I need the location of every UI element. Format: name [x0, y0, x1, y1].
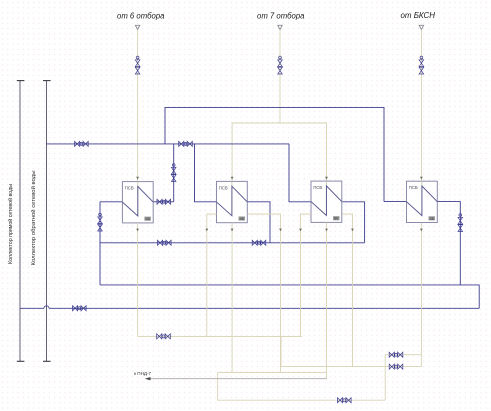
drain: heater2 right side jog x=280.5 — [247, 214, 280, 372]
heater ПСВ-2 — [217, 181, 248, 222]
svg-text:Коллектор прямой сетевой воды: Коллектор прямой сетевой воды — [7, 184, 14, 264]
flow arrow below heater2 — [231, 229, 234, 232]
pipe: supply header y=143.9 from collector2 to x=289 — [47, 143, 290, 145]
steam header split from 7 отбор (y=123) — [232, 123, 326, 182]
source triangle (от 6 отбора) — [135, 25, 139, 29]
vertical valve on riser x=173.7 — [171, 164, 176, 182]
collector 1 (прямая сетевая вода) vertical x=20 — [17, 81, 25, 362]
valve pair on drain header y=336.4 — [157, 334, 171, 339]
pipe: heater4 outlet to drop x=460.3 — [437, 202, 460, 285]
valve pair on y=242.8 line left — [158, 240, 172, 245]
flow arrow on drain x=300.5 — [299, 229, 302, 232]
drain header y=400.2 — [218, 372, 386, 400]
valve pair on drain header y=366.6 — [389, 364, 403, 369]
pipe: y=284.9 line — [100, 285, 479, 308]
heater ПСВ-4 — [407, 181, 438, 222]
flow arrow below heater1 — [136, 229, 139, 232]
flow arrow above heater1 — [136, 177, 139, 180]
drain bypass y=354.7 — [385, 354, 421, 356]
pipe: upper header y=107.4 — [165, 107, 384, 201]
drain header y=336.4 — [138, 335, 302, 337]
flow arrow on drain x=280.5 — [279, 229, 282, 232]
valve pair on y=242.8 line right — [252, 240, 266, 245]
flow arrow below heater3 — [325, 229, 328, 232]
heater ПСВ-3 — [311, 181, 342, 222]
vertical valve on riser x=100 — [98, 213, 103, 231]
drain: heater2 centre down to y=372.4 — [231, 223, 233, 373]
pipe: heater2 outlet to drop x=270 — [247, 202, 270, 243]
drain drop x=385.2 to y=400.2 — [384, 355, 386, 401]
drain: heater3 right side jog x=352.5 — [342, 214, 352, 367]
svg-text:от 6 отбора: от 6 отбора — [117, 11, 165, 21]
valve pair on supply header (right) — [179, 141, 193, 146]
pipe: heater3 outlet to drop x=364.6 — [342, 202, 364, 243]
valve on БКСН pipe — [419, 56, 424, 74]
pipe: heater2 inlet drop x=194.5 — [195, 144, 217, 202]
flow arrow on drain x=352.5 — [351, 229, 354, 232]
valve pair on return line y=308.3 — [73, 306, 87, 311]
drain: heater3 centre down to k-PND line — [326, 222, 328, 378]
valve on 7-отбор pipe — [278, 56, 283, 74]
steam pipe from 6 отбор (vertical x=137.6) — [137, 30, 139, 182]
valve pair on supply header (left) — [75, 141, 89, 146]
flow arrow above heater2 — [231, 177, 234, 180]
drain: heater1 centre down to y=336.4 — [137, 223, 139, 337]
pipe: heater1 outlet to riser x=173.7 — [153, 201, 174, 203]
pipe: corner x=289 down to heater3 inlet — [289, 144, 311, 202]
drain: heater2 left side jog x=206.8 — [207, 214, 217, 336]
pipe: heater4 inlet horizontal — [384, 201, 407, 203]
pipe to ПНД-7 with arrow — [145, 377, 327, 380]
svg-text:Коллектор обратной сетевой вод: Коллектор обратной сетевой воды — [30, 171, 37, 266]
valve pair on drain header y=400.2 — [338, 398, 352, 403]
pipe: y=242.8 line — [100, 242, 365, 244]
valve pair on drain bypass y=354.7 — [389, 352, 403, 357]
source triangle (от БКСН) — [419, 25, 423, 29]
svg-text:от БКСН: от БКСН — [401, 10, 436, 20]
flow arrow below heater4 — [420, 229, 423, 232]
flow arrow on drain x=206.8 — [205, 229, 208, 232]
pipe: return line y=308.3 with hump over collector2 — [20, 306, 479, 309]
steam pipe from 7 отбор (vertical x=280) — [279, 30, 281, 123]
vertical valve on riser x=460.3 — [458, 214, 463, 232]
flow arrow above heater3 — [325, 177, 328, 180]
source triangle (от 7 отбора) — [278, 25, 282, 29]
drain link y=372.4 — [218, 371, 327, 373]
pipe: heater1 inlet horizontal — [100, 201, 122, 203]
valve pair on heater1 outlet — [157, 199, 171, 204]
collector 2 (обратная сетевая вода) vertical x=46.5 — [43, 81, 51, 362]
drain: heater4 centre down to y=366.6 — [420, 223, 422, 367]
drain: heater3 left side jog x=300.5 — [301, 214, 312, 336]
heater ПСВ-1 — [122, 182, 153, 223]
svg-text:от 7 отбора: от 7 отбора — [257, 11, 305, 21]
pipe: heater1 inlet riser x=100 down to y=285 — [99, 202, 101, 285]
drain drop x=281 y336-366 — [280, 336, 282, 366]
steam pipe from БКСН (vertical x=421.4) — [420, 30, 422, 182]
drain header y=366.6 — [281, 366, 421, 368]
flow arrow above heater4 — [420, 177, 423, 180]
valve on 6-отбор pipe — [135, 56, 140, 74]
pipe: riser x=173.7 — [173, 144, 175, 202]
svg-text:к ПНД-7: к ПНД-7 — [134, 371, 152, 376]
